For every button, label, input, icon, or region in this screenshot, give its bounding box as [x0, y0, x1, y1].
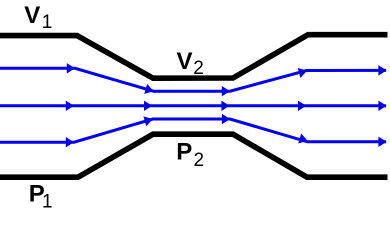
- svg-text:P: P: [176, 139, 192, 166]
- S3 arrow c: [222, 114, 230, 124]
- S2 arrow d: [298, 101, 306, 111]
- S2 arrow a: [66, 101, 74, 111]
- svg-text:2: 2: [193, 58, 204, 79]
- top wall: [0, 35, 388, 78]
- S3 arrow a: [66, 137, 74, 147]
- S3 arrow e: [378, 137, 386, 147]
- S1 arrow a: [67, 63, 75, 73]
- svg-text:1: 1: [42, 12, 53, 33]
- S1 arrow e: [378, 65, 386, 75]
- S3 arrow d: [298, 134, 309, 146]
- svg-text:V: V: [177, 48, 193, 75]
- S1 arrow d: [298, 66, 309, 78]
- svg-text:V: V: [24, 2, 40, 29]
- S1 arrow b: [144, 84, 155, 96]
- S2 arrow c: [221, 101, 229, 111]
- svg-text:1: 1: [42, 191, 53, 212]
- streamline S2 (middle): [0, 104, 386, 107]
- streamline S1 (top): [0, 68, 386, 91]
- S1 arrow c: [222, 86, 230, 96]
- S2 arrow b: [144, 101, 152, 111]
- S3 arrow b: [143, 114, 154, 126]
- S2 arrow e: [378, 101, 386, 111]
- bottom wall: [0, 134, 388, 177]
- svg-text:2: 2: [194, 150, 205, 171]
- streamline S3 (bottom): [0, 119, 386, 142]
